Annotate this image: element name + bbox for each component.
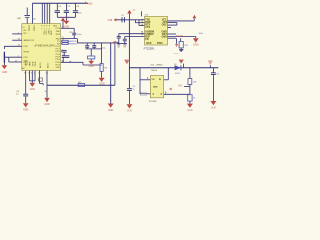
svg-text:VCC: VCC	[42, 31, 44, 36]
svg-text:19: 19	[141, 25, 143, 27]
svg-text:GND: GND	[108, 109, 114, 112]
svg-text:2: 2	[44, 28, 45, 30]
svg-text:15: 15	[141, 34, 143, 36]
svg-text:GND: GND	[211, 107, 217, 110]
svg-text:GND: GND	[44, 103, 50, 106]
svg-text:GND: GND	[174, 53, 179, 55]
svg-text:12: 12	[62, 61, 64, 63]
svg-text:GND: GND	[32, 61, 34, 66]
svg-text:30: 30	[18, 39, 20, 41]
svg-text:TXLED: TXLED	[176, 36, 184, 38]
svg-text:14: 14	[22, 27, 24, 29]
svg-text:GND: GND	[127, 110, 133, 113]
svg-text:FT232RL: FT232RL	[144, 46, 156, 50]
svg-text:GND: GND	[89, 65, 95, 68]
svg-text:8: 8	[44, 26, 45, 28]
svg-text:VO: VO	[152, 79, 155, 81]
svg-text:NC: NC	[24, 30, 28, 32]
svg-text:ADC7: ADC7	[46, 62, 49, 68]
svg-text:8: 8	[24, 72, 25, 74]
svg-text:1M: 1M	[104, 68, 107, 70]
svg-text:8: 8	[41, 26, 42, 28]
svg-text:C1: C1	[121, 15, 123, 17]
svg-text:D1: D1	[174, 64, 176, 66]
svg-text:LM340: LM340	[156, 64, 163, 66]
svg-text:VR GND: VR GND	[149, 101, 157, 103]
svg-text:+5V: +5V	[64, 17, 69, 19]
svg-text:MOSI: MOSI	[24, 51, 30, 53]
svg-text:OSC: OSC	[162, 24, 167, 27]
svg-text:AREF/DTC: AREF/DTC	[24, 39, 35, 42]
svg-text:GND: GND	[153, 86, 158, 88]
svg-text:5: 5	[31, 72, 32, 74]
svg-text:GND: GND	[2, 71, 8, 74]
svg-text:GND: GND	[23, 109, 29, 112]
svg-text:17: 17	[62, 37, 64, 39]
svg-text:12: 12	[15, 60, 17, 62]
svg-text:2: 2	[34, 72, 35, 74]
svg-text:USB: USB	[108, 20, 113, 22]
svg-text:8: 8	[49, 26, 50, 28]
svg-text:3: 3	[28, 72, 29, 74]
svg-text:+5V: +5V	[178, 85, 183, 87]
svg-text:SJ: SJ	[45, 91, 47, 93]
svg-text:AGN: AGN	[50, 31, 53, 36]
svg-text:78L05: 78L05	[151, 70, 158, 72]
svg-text:3 5 2 2: 3 5 2 2	[24, 64, 30, 66]
svg-text:GND: GND	[193, 43, 199, 46]
svg-text:7: 7	[41, 28, 42, 30]
svg-text:24: 24	[18, 45, 20, 47]
svg-text:CTS: CTS	[145, 26, 150, 29]
svg-text:XTAL1: XTAL1	[28, 25, 31, 32]
svg-text:GND: GND	[64, 25, 70, 28]
svg-text:GND: GND	[161, 35, 167, 38]
svg-text:27R: 27R	[184, 45, 188, 47]
svg-text:GND: GND	[30, 88, 36, 91]
svg-text:P5J5: P5J5	[157, 42, 163, 45]
svg-text:21: 21	[38, 72, 40, 74]
svg-text:11: 11	[62, 55, 64, 57]
svg-text:+5V: +5V	[87, 1, 92, 5]
svg-text:13: 13	[62, 40, 64, 42]
svg-text:XTAL2: XTAL2	[32, 25, 35, 32]
svg-text:8: 8	[46, 26, 47, 28]
svg-text:2: 2	[49, 28, 50, 30]
svg-text:VCC: VCC	[45, 31, 47, 36]
svg-text:LED: LED	[193, 82, 197, 84]
svg-text:PD: PD	[145, 38, 149, 41]
svg-text:ADC6: ADC6	[39, 62, 42, 68]
svg-text:M8RXD: M8RXD	[70, 44, 78, 46]
svg-text:16M: 16M	[17, 18, 21, 20]
svg-text:GND: GND	[187, 109, 193, 112]
svg-text:GND: GND	[35, 61, 37, 66]
svg-text:GND: GND	[24, 61, 29, 63]
svg-text:PSC: PSC	[24, 46, 29, 48]
svg-text:ATMEGA8A16PU: ATMEGA8A16PU	[35, 44, 56, 47]
svg-text:2: 2	[18, 56, 19, 58]
svg-text:GND: GND	[99, 83, 105, 86]
svg-text:2: 2	[46, 28, 47, 30]
svg-text:1: 1	[18, 32, 19, 34]
svg-text:NC: NC	[24, 33, 28, 35]
svg-text:RLB: RLB	[147, 42, 152, 45]
svg-text:1: 1	[62, 27, 63, 29]
svg-text:23: 23	[46, 72, 48, 74]
